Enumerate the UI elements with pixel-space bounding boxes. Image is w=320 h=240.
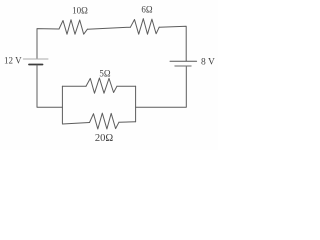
wire: bottom branch right segment [119, 121, 136, 123]
resistor R4 20Ω (zigzag) [90, 113, 119, 129]
wire: battery V2 down to bottom-right junction and left to box [136, 67, 187, 108]
svg-text:12 V: 12 V [4, 55, 22, 65]
resistor R2 6Ω (zigzag) [130, 19, 159, 35]
svg-text:20Ω: 20Ω [95, 133, 114, 144]
resistor R3 5Ω (zigzag) [86, 78, 117, 93]
wire: top branch left segment [62, 85, 86, 87]
wire: between R1 and R2 on top side [87, 27, 130, 29]
wire: top branch right segment [117, 85, 136, 87]
battery V1 long plate [23, 58, 48, 60]
wire: parallel box right edge [135, 86, 137, 122]
resistor R1 10Ω (zigzag) [59, 20, 87, 35]
svg-text:6Ω: 6Ω [141, 5, 153, 15]
svg-text:10Ω: 10Ω [72, 5, 88, 15]
wire: bottom branch left segment [62, 123, 89, 125]
wire: parallel box left edge [61, 86, 63, 123]
wire: R2 to top-right corner down to battery V2 [159, 26, 186, 61]
wire: left branch from battery V1 up and across top to resistor R1 [37, 29, 59, 59]
battery V2 long plate [170, 60, 197, 62]
battery V1 short plate [29, 64, 43, 66]
battery V2 short plate [175, 65, 191, 67]
wire: battery V1 down to bottom-left junction and right to box [37, 65, 62, 107]
svg-text:8 V: 8 V [201, 58, 215, 68]
svg-text:5Ω: 5Ω [99, 69, 111, 79]
